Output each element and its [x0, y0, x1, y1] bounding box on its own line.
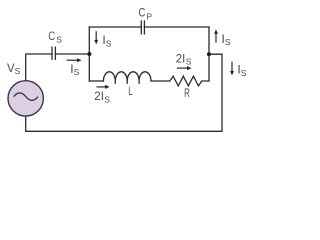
svg-text:S: S: [225, 37, 231, 47]
svg-text:C: C: [48, 29, 55, 43]
svg-text:V: V: [7, 61, 15, 75]
svg-text:L: L: [128, 86, 133, 98]
svg-text:C: C: [139, 5, 146, 19]
svg-text:S: S: [56, 34, 62, 44]
svg-text:S: S: [106, 38, 112, 48]
svg-text:S: S: [74, 67, 80, 77]
svg-text:2I: 2I: [176, 52, 186, 66]
svg-text:S: S: [15, 66, 21, 76]
svg-text:S: S: [186, 57, 192, 67]
svg-text:S: S: [104, 94, 110, 104]
svg-text:2I: 2I: [94, 89, 104, 103]
svg-text:P: P: [146, 11, 152, 21]
svg-text:R: R: [184, 88, 190, 100]
svg-text:S: S: [241, 68, 247, 78]
